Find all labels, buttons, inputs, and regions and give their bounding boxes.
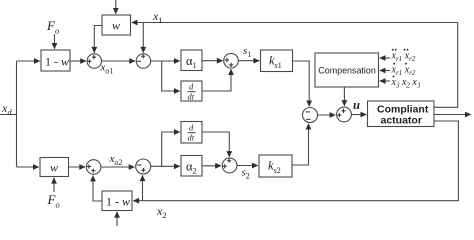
block alpha1 (181, 50, 202, 71)
sign plus A left (87, 59, 91, 63)
sign plus A2 bottom (91, 169, 95, 173)
wire alpha1 to sum C (202, 60, 223, 62)
svg-text:xo2: xo2 (109, 153, 123, 167)
wire from bottom edge into 1-w bottom (116, 212, 118, 226)
wire w top output to sum A (94, 26, 102, 53)
svg-text:s1: s1 (243, 45, 251, 59)
wire k_s2 to sum D1 bottom (292, 124, 309, 165)
sign plus C2 top (227, 159, 231, 163)
svg-text:Fo: Fo (46, 18, 59, 36)
wire compensation input row 2 (380, 70, 390, 72)
svg-text:s2: s2 (242, 167, 250, 181)
wire x_2 rise to sum B2 (142, 175, 144, 200)
wire sum C to k_s1 (238, 60, 259, 62)
svg-text:x3 x2 x3: x3 x2 x3 (391, 77, 421, 90)
wire 1-w bottom output to sum A2 (93, 176, 102, 201)
summing junction B (136, 54, 150, 68)
wire d/dt top to sum C (202, 69, 231, 91)
svg-text:xr1 xr2: xr1 xr2 (391, 51, 416, 64)
wire x_1 feedback line (132, 23, 458, 108)
sign plus D2 left (337, 113, 341, 117)
block alpha2 (181, 156, 202, 177)
summing junction D1 (303, 108, 318, 123)
svg-text:actuator: actuator (381, 115, 422, 127)
svg-text:w: w (112, 19, 120, 33)
block Compliant actuator (368, 101, 435, 127)
wire sum D1 to sum D2 (318, 114, 336, 116)
block 1-w top (41, 50, 70, 71)
sign plus C bottom (229, 63, 233, 67)
sign plus C2 left (223, 164, 227, 168)
label xdot_3 x_2 x_3 (391, 76, 421, 90)
wire compensation input row 1 (380, 57, 390, 59)
wire x_d input (0, 114, 17, 116)
wire 1-w top to sum A (70, 60, 86, 62)
label xdot_r1 xdot_r2 (391, 63, 416, 77)
summing junction D2 (337, 107, 352, 122)
sign plus C left (225, 58, 229, 62)
svg-text:xd: xd (1, 101, 12, 117)
sign plus A2 left (87, 164, 91, 168)
svg-text:u: u (353, 98, 360, 112)
label block text d/dt bottom (188, 123, 196, 143)
wire branch to d/dt bottom (162, 132, 180, 166)
svg-text:xr1 xr2: xr1 xr2 (391, 65, 416, 78)
block k_s1 (261, 50, 293, 72)
label block text d/dt top (188, 82, 196, 102)
svg-text:w: w (50, 161, 58, 175)
wire sum A to sum B (102, 60, 136, 62)
wire compliant actuator main output (434, 114, 471, 116)
block w top (102, 15, 131, 35)
summing junction A2 (86, 160, 101, 175)
wire branch to d/dt top (162, 61, 180, 91)
sign minus D1 top (306, 111, 310, 113)
svg-text:x1: x1 (152, 9, 163, 25)
svg-text:x2: x2 (156, 204, 167, 220)
sign minus B left (137, 60, 141, 62)
wire sum C2 to k_s2 (237, 165, 258, 167)
summing junction B2 (136, 159, 151, 174)
block Compensation (315, 53, 379, 87)
summing junction C2 (222, 158, 237, 173)
wire x_2 feedback line (133, 121, 458, 201)
wire w bottom to sum A2 (69, 166, 86, 168)
label xddot_r1 xddot_r2 (391, 49, 416, 63)
sign plus B top (141, 54, 145, 58)
wire d/dt bottom to sum C2 (202, 132, 229, 157)
block w bottom (40, 158, 69, 177)
sign plus D2 top (341, 109, 345, 113)
sign minus B2 left (137, 164, 141, 166)
wire sum A2 to sum B2 (101, 166, 135, 168)
wire F_o top into 1-w (54, 34, 56, 49)
wire k_s1 to sum D1 top (293, 61, 310, 106)
label block text Compliant actuator (377, 104, 429, 127)
wire x_d to 1-w top (17, 60, 40, 62)
wire sum B2 to alpha2 (151, 165, 180, 167)
sign plus A top (92, 55, 96, 59)
wire x_d vertical bus (16, 61, 18, 167)
wire compensation to sum D2 (343, 87, 345, 106)
block k_s2 (259, 155, 292, 177)
summing junction C (224, 53, 239, 68)
wire alpha2 to sum C2 (202, 165, 221, 167)
wire compensation input row 3 (380, 80, 390, 82)
wire F_o bottom into w (53, 178, 55, 192)
wire x_1 drop to sum B (142, 23, 144, 53)
block d/dt top (181, 81, 202, 101)
svg-text:xo1: xo1 (100, 62, 114, 76)
svg-text:Compensation: Compensation (318, 66, 376, 76)
block d/dt bottom (181, 122, 202, 144)
wire from top edge into w top (115, 0, 117, 14)
svg-text:1 - w: 1 - w (106, 195, 130, 209)
svg-text:Fo: Fo (47, 192, 60, 210)
summing junction A (87, 54, 101, 68)
sign plus B2 bottom (141, 168, 145, 172)
svg-text:1 - w: 1 - w (45, 55, 69, 69)
sign minus D1 bottom (306, 118, 310, 120)
svg-text:dt: dt (188, 92, 195, 102)
wire x_d to w bottom (17, 166, 39, 168)
wire sum D2 to compliant actuator (351, 114, 366, 116)
wire sum B to alpha1 (151, 60, 180, 62)
svg-text:dt: dt (188, 133, 195, 143)
block 1-w bottom (102, 191, 132, 211)
